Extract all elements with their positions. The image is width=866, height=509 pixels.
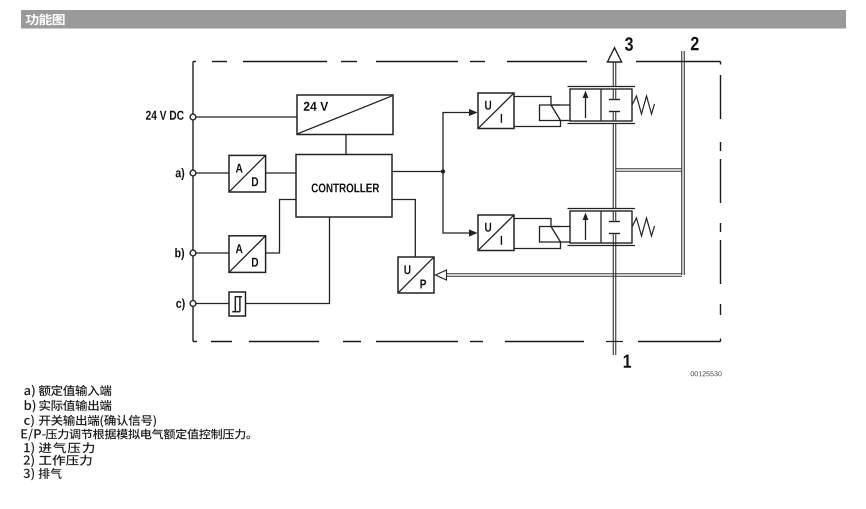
pneumatic supply line port 1 bbox=[606, 244, 623, 356]
wire A/D (b) to controller bbox=[266, 200, 296, 254]
wire node N1 to U/I converter 1 bbox=[443, 109, 478, 172]
U/I converter (top valve driver) bbox=[478, 93, 514, 129]
terminal b actual value output bbox=[175, 248, 196, 260]
legend 3) exhaust 排气 bbox=[24, 468, 62, 481]
U/I converter (bottom valve driver) bbox=[478, 215, 514, 251]
wire controller to U/P converter bbox=[392, 200, 415, 258]
solenoid actuator coil (V2 exhaust) bbox=[540, 227, 571, 243]
pneumatic line valve V1 to valve V2 bbox=[613, 124, 616, 209]
legend b) actual value output 实际值输出端 bbox=[25, 400, 112, 413]
A/D converter (setpoint input a) bbox=[229, 155, 266, 192]
enclosure boundary bottom (dash-dot) bbox=[193, 341, 721, 343]
exhaust outlet symbol (port 3 triangle) bbox=[607, 48, 621, 62]
title bar 功能图 (function diagram) bbox=[21, 10, 846, 29]
wire terminal a to A/D converter bbox=[196, 172, 229, 174]
wire switching element to controller bbox=[246, 217, 330, 304]
wire controller to node N1 bbox=[392, 171, 443, 173]
pneumatic line working pressure to port 2 bbox=[616, 51, 684, 275]
wire U/I 1 to solenoid coil 1 bbox=[514, 97, 561, 127]
return spring (V1 air admission) bbox=[632, 96, 655, 114]
controller unit bbox=[296, 155, 392, 218]
wire terminal b to A/D converter bbox=[196, 252, 229, 254]
solenoid actuator coil (V1 air admission) bbox=[540, 105, 571, 121]
legend a) setpoint input 额定值输入端 bbox=[24, 385, 111, 398]
wire A/D (a) to controller bbox=[266, 172, 296, 174]
port label 3 bbox=[625, 37, 633, 51]
wire 24V DC supply to power unit bbox=[196, 116, 297, 118]
switching output element (hysteresis symbol) bbox=[229, 292, 246, 316]
pneumatic line valve V1 to exhaust port 3 bbox=[613, 62, 616, 87]
figure number 00125530 bbox=[691, 371, 722, 376]
legend E/P pressure control description bbox=[22, 429, 251, 441]
enclosure boundary right (dash-dot) bbox=[720, 62, 722, 342]
wire U/I 2 to solenoid coil 2 bbox=[514, 219, 561, 249]
legend 2) working pressure 工作压力 bbox=[24, 455, 92, 468]
wire power unit to controller bbox=[345, 135, 347, 155]
enclosure boundary left (solid) bbox=[192, 62, 194, 342]
wire terminal c to switching element bbox=[196, 303, 229, 305]
enclosure boundary top (dash-dot) bbox=[193, 61, 721, 63]
2/2 proportional valve V2 exhaust body bbox=[568, 209, 636, 246]
A/D converter (actual value output b) bbox=[229, 236, 266, 273]
2/2 proportional valve V1 air admission body bbox=[568, 87, 636, 124]
wire node N1 to U/I converter 2 bbox=[443, 172, 478, 237]
node N1 branch junction bbox=[441, 169, 445, 173]
terminal c switching output bbox=[176, 299, 196, 311]
terminal a setpoint input bbox=[176, 168, 196, 180]
legend 1) supply pressure 进气压力 bbox=[24, 442, 94, 455]
port label 2 bbox=[691, 37, 699, 50]
return spring (V2 exhaust) bbox=[632, 218, 655, 236]
pneumatic measuring line to U/P converter bbox=[436, 270, 683, 280]
U/P converter (pressure sensor) bbox=[398, 257, 434, 293]
port label 1 bbox=[624, 355, 631, 368]
power supply unit 24V DC/DC converter bbox=[297, 95, 393, 135]
terminal 24V DC supply bbox=[146, 111, 196, 120]
legend c) switching output 开关输出端(确认信号) bbox=[24, 415, 156, 428]
